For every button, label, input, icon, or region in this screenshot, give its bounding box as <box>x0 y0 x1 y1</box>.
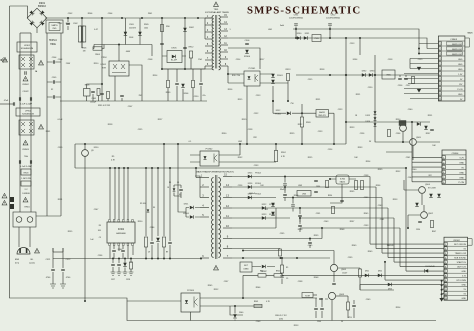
svg-text:GND: GND <box>462 271 467 273</box>
svg-text:R931: R931 <box>46 131 51 133</box>
svg-text:R912 750: R912 750 <box>232 75 240 77</box>
svg-text:C923: C923 <box>318 131 323 133</box>
svg-text:R943: R943 <box>254 301 258 303</box>
svg-text:D926: D926 <box>248 183 253 185</box>
svg-text:R933: R933 <box>358 147 363 149</box>
svg-text:R948: R948 <box>340 229 345 231</box>
svg-text:C946: C946 <box>150 227 155 229</box>
svg-text:R938: R938 <box>298 229 303 231</box>
svg-text:C943: C943 <box>378 205 383 207</box>
svg-text:(On): (On) <box>15 263 19 265</box>
svg-text:0.1uF D-CAP: 0.1uF D-CAP <box>20 103 33 106</box>
svg-text:47u: 47u <box>202 95 205 97</box>
svg-text:R929: R929 <box>290 133 295 135</box>
svg-text:3mH: 3mH <box>280 25 285 27</box>
svg-text:750: 750 <box>290 103 293 105</box>
svg-text:P-ON: P-ON <box>459 182 465 184</box>
svg-text:C940: C940 <box>412 169 417 171</box>
svg-text:L902: L902 <box>238 141 242 143</box>
svg-text:C902: C902 <box>73 23 78 25</box>
svg-text:C913: C913 <box>256 95 261 97</box>
svg-text:C904: C904 <box>58 59 63 61</box>
svg-text:R952: R952 <box>396 171 401 173</box>
svg-text:P-ON: P-ON <box>457 89 463 91</box>
svg-text:C929: C929 <box>58 147 63 149</box>
svg-text:C932: C932 <box>364 197 369 199</box>
svg-text:R948: R948 <box>314 277 319 279</box>
svg-text:C917: C917 <box>406 85 411 87</box>
svg-text:GND: GND <box>462 285 467 287</box>
svg-text:2R2: 2R2 <box>253 137 256 139</box>
svg-text:START-5V: START-5V <box>457 261 467 264</box>
svg-text:CM903: CM903 <box>22 149 30 151</box>
svg-text:R939: R939 <box>378 169 383 171</box>
svg-text:R930: R930 <box>222 133 227 135</box>
svg-text:ZD9: ZD9 <box>348 317 351 319</box>
svg-text:D921: D921 <box>184 203 189 205</box>
svg-text:D905: D905 <box>172 48 178 50</box>
svg-text:5.2V: 5.2V <box>460 158 465 160</box>
svg-text:250V: 250V <box>66 63 71 65</box>
svg-text:C949: C949 <box>366 299 371 301</box>
svg-text:EMI: EMI <box>15 259 19 261</box>
svg-text:EXTERNAL AMP TRANS: EXTERNAL AMP TRANS <box>205 11 229 14</box>
svg-text:X2: X2 <box>51 89 53 91</box>
svg-text:C902: C902 <box>68 13 73 15</box>
svg-text:C938: C938 <box>298 281 303 283</box>
svg-text:220uF/5V(SMD): 220uF/5V(SMD) <box>289 18 303 20</box>
svg-text:C947: C947 <box>94 209 99 211</box>
svg-text:IC902: IC902 <box>118 229 125 231</box>
svg-text:400V: 400V <box>126 51 131 53</box>
svg-text:R910: R910 <box>94 63 99 65</box>
svg-text:R946: R946 <box>294 195 299 197</box>
svg-text:1N4148: 1N4148 <box>387 245 394 247</box>
svg-text:C940: C940 <box>408 109 413 111</box>
svg-text:C928: C928 <box>126 279 130 281</box>
svg-text:R909: R909 <box>166 92 171 94</box>
svg-text:CM902: CM902 <box>22 84 30 86</box>
svg-text:R937: R937 <box>350 221 355 223</box>
svg-text:R927: R927 <box>158 119 163 121</box>
svg-text:D9: D9 <box>153 207 155 209</box>
svg-text:LF902: LF902 <box>25 111 32 113</box>
svg-text:R949: R949 <box>368 251 373 253</box>
svg-text:47uF: 47uF <box>4 100 9 102</box>
svg-text:C931: C931 <box>316 213 321 215</box>
svg-text:C913: C913 <box>350 43 355 45</box>
svg-text:C9: C9 <box>99 237 101 239</box>
svg-text:0.1: 0.1 <box>189 141 192 143</box>
svg-text:ZD901: ZD901 <box>277 75 283 77</box>
svg-text:HIDE: HIDE <box>50 43 56 46</box>
svg-text:C937: C937 <box>224 281 229 283</box>
svg-text:R945: R945 <box>364 213 369 215</box>
svg-text:BL-DIP: BL-DIP <box>171 60 178 62</box>
svg-text:(wont): (wont) <box>29 262 35 265</box>
svg-text:C923: C923 <box>338 109 343 111</box>
svg-text:SUB SOUND: SUB SOUND <box>454 258 466 260</box>
svg-text:GND: GND <box>459 177 464 179</box>
svg-text:USED: USED <box>243 269 249 271</box>
svg-text:PC902: PC902 <box>206 149 213 151</box>
svg-text:C904: C904 <box>108 13 113 15</box>
svg-text:R954: R954 <box>366 161 371 163</box>
svg-text:D9 1N4148: D9 1N4148 <box>425 266 434 268</box>
svg-text:R944: R944 <box>118 249 123 251</box>
svg-text:R928: R928 <box>108 124 113 126</box>
svg-text:C908: C908 <box>148 59 153 61</box>
svg-text:1N4: 1N4 <box>198 59 201 61</box>
svg-text:FR104: FR104 <box>255 172 260 174</box>
svg-text:[5V]: [5V] <box>279 319 283 321</box>
svg-text:L901: L901 <box>268 29 272 31</box>
svg-text:1000uF: 1000uF <box>249 193 256 195</box>
svg-text:D934: D934 <box>353 59 358 61</box>
svg-text:C935: C935 <box>280 233 285 235</box>
svg-text:GND: GND <box>458 69 463 71</box>
svg-text:SMPS OUT: SMPS OUT <box>452 44 463 46</box>
svg-text:R904: R904 <box>95 54 100 56</box>
svg-text:R952: R952 <box>214 289 219 291</box>
svg-text:222/1KV: 222/1KV <box>129 27 137 29</box>
svg-text:R9: R9 <box>286 267 288 269</box>
svg-text:D932: D932 <box>362 71 367 73</box>
svg-text:2K2: 2K2 <box>428 175 431 177</box>
svg-text:R923: R923 <box>350 127 355 129</box>
svg-text:R906: R906 <box>82 48 87 50</box>
svg-text:FIELD 7.5V: FIELD 7.5V <box>275 315 287 317</box>
svg-text:IC902: IC902 <box>340 179 346 181</box>
svg-text:R9: R9 <box>169 182 171 184</box>
svg-text:R936: R936 <box>376 185 381 187</box>
svg-text:UP DOWN: UP DOWN <box>456 280 466 282</box>
svg-text:1000pF: 1000pF <box>90 102 97 104</box>
svg-text:D930: D930 <box>297 33 302 35</box>
svg-text:C945: C945 <box>308 245 313 247</box>
svg-text:C936: C936 <box>396 133 401 135</box>
svg-text:IND: IND <box>53 28 57 30</box>
svg-text:D931: D931 <box>305 33 310 35</box>
svg-text:R919: R919 <box>242 119 247 121</box>
svg-text:D933: D933 <box>370 71 375 73</box>
svg-text:R921: R921 <box>316 99 321 101</box>
svg-text:C920: C920 <box>368 87 373 89</box>
svg-text:C918: C918 <box>388 59 393 61</box>
svg-text:KTC3198: KTC3198 <box>428 187 436 189</box>
svg-text:CN904: CN904 <box>452 153 460 155</box>
svg-text:STR-F: STR-F <box>101 57 107 59</box>
svg-text:C904: C904 <box>52 57 57 59</box>
svg-text:CN903: CN903 <box>450 39 458 41</box>
svg-text:ZD2: ZD2 <box>265 209 268 211</box>
svg-text:FR306: FR306 <box>244 56 251 58</box>
svg-text:R918: R918 <box>320 69 325 71</box>
svg-text:C933: C933 <box>364 225 369 227</box>
svg-text:C926: C926 <box>360 133 365 135</box>
svg-text:1.5M 1/2W: 1.5M 1/2W <box>21 178 31 180</box>
svg-text:0.47: 0.47 <box>94 29 98 31</box>
svg-text:SMD-123: SMD-123 <box>318 115 325 117</box>
svg-text:D906: D906 <box>184 93 189 95</box>
svg-text:GND: GND <box>458 94 463 96</box>
svg-text:RH01: RH01 <box>24 207 30 209</box>
svg-text:D952: D952 <box>378 271 382 273</box>
svg-text:FR306: FR306 <box>275 114 280 116</box>
svg-text:STR: STR <box>102 67 107 69</box>
svg-text:D915: D915 <box>365 115 370 117</box>
svg-text:GND: GND <box>458 64 463 66</box>
svg-text:TIMER LOW: TIMER LOW <box>455 253 466 255</box>
svg-text:SET OFF/ON: SET OFF/ON <box>454 244 467 246</box>
svg-text:R950: R950 <box>138 221 143 223</box>
svg-text:D903: D903 <box>129 37 133 39</box>
svg-text:D951: D951 <box>365 271 369 273</box>
svg-text:L903: L903 <box>298 185 302 187</box>
svg-text:GND: GND <box>458 59 463 61</box>
svg-text:GND: GND <box>459 163 464 165</box>
svg-text:R954: R954 <box>396 307 401 309</box>
svg-text:C942: C942 <box>408 177 413 179</box>
svg-text:SMPS OUT: SMPS OUT <box>452 54 463 56</box>
svg-text:C928: C928 <box>248 129 253 131</box>
svg-text:C914: C914 <box>236 59 241 61</box>
svg-text:R9 10K: R9 10K <box>140 203 147 205</box>
svg-text:MAIN TRANSFORMER(STR2SF6267): MAIN TRANSFORMER(STR2SF6267) <box>196 171 234 174</box>
svg-text:D910: D910 <box>94 147 99 149</box>
svg-text:C941: C941 <box>380 219 385 221</box>
svg-text:R951: R951 <box>58 199 63 201</box>
svg-text:C905: C905 <box>91 98 96 100</box>
svg-text:C924: C924 <box>328 149 333 151</box>
svg-text:LF901: LF901 <box>24 45 31 47</box>
svg-text:R949: R949 <box>352 245 357 247</box>
svg-text:IC901: IC901 <box>101 64 107 66</box>
svg-text:KA3S0680: KA3S0680 <box>116 232 126 235</box>
svg-text:C915: C915 <box>308 79 313 81</box>
svg-text:R945: R945 <box>208 285 213 287</box>
svg-text:C943: C943 <box>324 221 329 223</box>
svg-text:0.1uF: 0.1uF <box>58 119 64 121</box>
svg-text:HOPLC: HOPLC <box>49 39 58 42</box>
svg-text:C934: C934 <box>416 229 420 231</box>
svg-text:R941: R941 <box>260 271 264 273</box>
svg-text:C5027: C5027 <box>342 273 347 275</box>
svg-text:D925: D925 <box>248 172 253 174</box>
svg-text:R953: R953 <box>294 325 299 327</box>
svg-text:C939: C939 <box>348 257 353 259</box>
svg-text:R914: R914 <box>153 75 158 77</box>
svg-text:KA431: KA431 <box>319 111 325 114</box>
svg-text:FR104: FR104 <box>255 193 260 195</box>
svg-text:R906: R906 <box>88 13 93 15</box>
svg-text:D922: D922 <box>262 204 267 206</box>
svg-text:C916: C916 <box>398 85 403 87</box>
svg-text:R953: R953 <box>393 199 398 201</box>
svg-text:R947: R947 <box>432 231 436 233</box>
svg-text:S2064B01CM: S2064B01CM <box>22 114 34 116</box>
svg-text:PC901: PC901 <box>249 68 256 70</box>
svg-text:SMPS: SMPS <box>51 25 58 27</box>
svg-text:C933: C933 <box>254 165 259 167</box>
svg-text:R932: R932 <box>238 157 243 159</box>
svg-text:R921: R921 <box>356 94 361 96</box>
svg-text:C927: C927 <box>111 279 115 281</box>
svg-text:R922: R922 <box>298 124 303 126</box>
svg-text:C938: C938 <box>364 175 369 177</box>
svg-text:C930: C930 <box>316 186 320 188</box>
svg-text:R925: R925 <box>308 157 313 159</box>
svg-text:R917: R917 <box>260 59 265 61</box>
svg-text:KA431: KA431 <box>340 180 345 183</box>
svg-text:R915: R915 <box>238 99 243 101</box>
svg-text:R939: R939 <box>314 235 319 237</box>
svg-text:C907: C907 <box>128 106 133 108</box>
svg-text:SMPS-SCHEMATIC: SMPS-SCHEMATIC <box>247 5 361 17</box>
svg-text:C948: C948 <box>256 321 261 323</box>
svg-text:R901: R901 <box>66 23 71 25</box>
svg-text:2W: 2W <box>139 95 142 97</box>
svg-text:D940: D940 <box>239 312 243 314</box>
svg-text:R935: R935 <box>350 191 355 193</box>
svg-text:R.3H: R.3H <box>305 295 310 297</box>
svg-text:R905: R905 <box>144 24 149 26</box>
svg-text:C903: C903 <box>129 24 134 26</box>
svg-text:R920: R920 <box>306 122 311 124</box>
svg-text:C922: C922 <box>254 113 259 115</box>
svg-text:S2064B01CM: S2064B01CM <box>21 48 34 50</box>
svg-text:C919: C919 <box>418 59 423 61</box>
svg-text:R942: R942 <box>276 271 280 273</box>
svg-text:C9: C9 <box>148 252 150 254</box>
svg-text:D4580B: D4580B <box>22 193 30 195</box>
svg-text:R950: R950 <box>396 119 401 121</box>
svg-text:Z901: Z901 <box>148 13 152 15</box>
svg-text:C926: C926 <box>238 185 243 187</box>
svg-text:D923: D923 <box>262 214 267 216</box>
svg-text:R916: R916 <box>228 89 233 91</box>
svg-text:R934: R934 <box>328 195 332 197</box>
svg-text:C9022: C9022 <box>22 91 29 93</box>
svg-text:R955: R955 <box>68 231 73 233</box>
svg-text:0.1uF D-CAP: 0.1uF D-CAP <box>20 165 33 168</box>
svg-text:5.1V: 5.1V <box>462 276 467 278</box>
svg-text:220uF/5V(SMD): 220uF/5V(SMD) <box>326 18 340 20</box>
svg-text:1M: 1M <box>83 51 86 53</box>
svg-text:GND: GND <box>459 172 464 174</box>
svg-text:C901: C901 <box>58 23 63 25</box>
svg-text:MAIN: MAIN <box>468 32 474 35</box>
svg-text:C9: C9 <box>286 278 288 280</box>
svg-text:L903: L903 <box>302 194 306 196</box>
svg-text:AUTO-5V: AUTO-5V <box>457 266 466 269</box>
svg-text:C944: C944 <box>317 321 321 323</box>
svg-text:T901: T901 <box>214 9 220 11</box>
svg-text:R946: R946 <box>256 287 261 289</box>
svg-text:1: 1 <box>229 29 230 31</box>
svg-text:C925: C925 <box>138 129 143 131</box>
svg-text:GND: GND <box>462 298 467 300</box>
svg-text:1.3V: 1.3V <box>458 74 463 76</box>
svg-text:R9: R9 <box>166 252 168 254</box>
svg-text:BR310: BR310 <box>38 4 46 8</box>
svg-text:C941: C941 <box>406 157 411 159</box>
svg-text:R924: R924 <box>281 152 286 154</box>
svg-text:R937: R937 <box>426 133 431 135</box>
svg-text:R951: R951 <box>428 115 433 117</box>
svg-text:SMPS OUT: SMPS OUT <box>452 49 463 51</box>
svg-text:C905: C905 <box>52 77 57 79</box>
svg-text:R9: R9 <box>99 225 101 227</box>
svg-text:R911 0.22 2W: R911 0.22 2W <box>98 105 110 107</box>
svg-text:C910: C910 <box>194 96 199 98</box>
svg-text:PC903: PC903 <box>187 290 194 292</box>
svg-text:D912: D912 <box>276 110 281 112</box>
svg-text:750k: 750k <box>24 156 28 158</box>
svg-text:100k: 100k <box>144 27 148 29</box>
svg-text:C936: C936 <box>98 255 103 257</box>
